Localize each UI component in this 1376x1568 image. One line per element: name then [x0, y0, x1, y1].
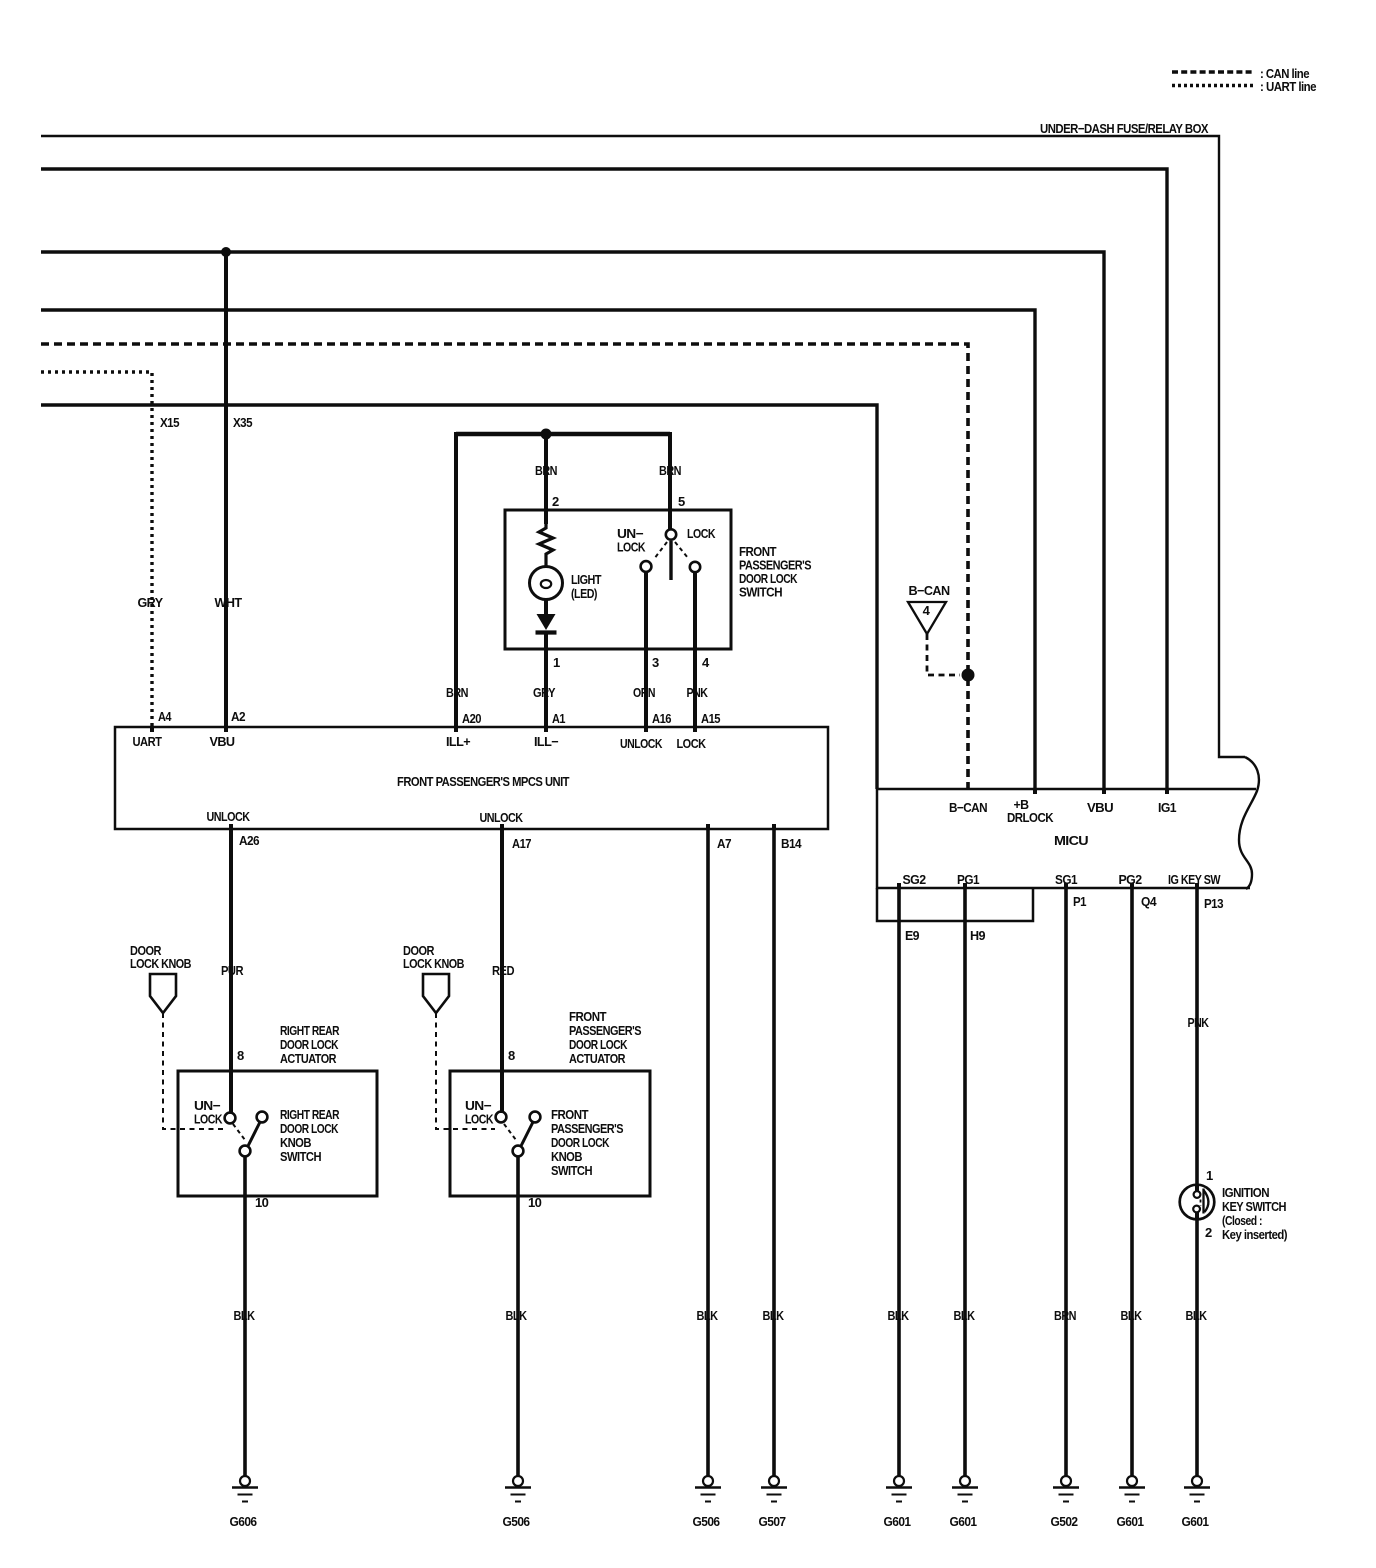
svg-text:BLK: BLK [954, 1308, 976, 1323]
knob switch arm 1 [248, 1122, 260, 1146]
svg-text:E9: E9 [905, 928, 919, 943]
svg-text:P1: P1 [1073, 894, 1086, 909]
door lock knob symbol 1 [150, 974, 176, 1013]
svg-text:BRN: BRN [1054, 1308, 1076, 1323]
legend CAN line sample [1172, 70, 1254, 73]
wire ILL horizontal [456, 432, 670, 437]
svg-text:BLK: BLK [888, 1308, 910, 1323]
svg-text:DRLOCK: DRLOCK [1007, 810, 1054, 825]
svg-text:UNLOCK: UNLOCK [620, 736, 663, 751]
ground G606 [232, 1476, 258, 1502]
LED filament [541, 580, 551, 588]
dashed B-CAN branch [927, 634, 960, 675]
diode bar [536, 630, 557, 634]
wire A7 to ground [706, 829, 710, 1476]
svg-text:GRY: GRY [533, 685, 556, 700]
switch dashed throw left [654, 542, 667, 559]
front passenger's door lock switch box [505, 510, 731, 649]
ignition wire stub top [1195, 1185, 1199, 1192]
svg-text:UNDER−DASH FUSE/RELAY BOX: UNDER−DASH FUSE/RELAY BOX [1040, 121, 1209, 136]
svg-text:PASSENGER'S: PASSENGER'S [569, 1023, 642, 1038]
svg-text:BRN: BRN [659, 463, 681, 478]
svg-text:ILL+: ILL+ [446, 734, 471, 749]
knob switch contact 1c [240, 1146, 251, 1157]
svg-text:FRONT PASSENGER'S MPCS UNIT: FRONT PASSENGER'S MPCS UNIT [397, 774, 570, 789]
svg-text:2: 2 [552, 494, 559, 509]
ground G507 [761, 1476, 787, 1502]
wire PG1 to ground [963, 888, 967, 1476]
svg-text:A7: A7 [717, 836, 731, 851]
svg-text:Q4: Q4 [1141, 894, 1157, 909]
svg-text:SG2: SG2 [903, 872, 926, 887]
svg-text:FRONT: FRONT [551, 1107, 589, 1122]
svg-text:8: 8 [508, 1048, 515, 1063]
ground G601 SG2 [886, 1476, 912, 1502]
switch contact unlock [641, 561, 652, 572]
svg-text:1: 1 [1206, 1168, 1213, 1183]
svg-text:A15: A15 [701, 711, 720, 726]
switch common contact [666, 529, 676, 539]
svg-text:DOOR LOCK: DOOR LOCK [280, 1121, 339, 1136]
svg-text:5: 5 [678, 494, 685, 509]
svg-text:ILL−: ILL− [534, 734, 559, 749]
svg-text:LOCK: LOCK [194, 1112, 223, 1127]
svg-text:Key inserted): Key inserted) [1222, 1227, 1287, 1242]
wire VBU bus [41, 252, 1104, 789]
svg-text:ACTUATOR: ACTUATOR [280, 1051, 337, 1066]
knob switch contact 1b [257, 1112, 268, 1123]
svg-text:IGNITION: IGNITION [1222, 1185, 1269, 1200]
switch contact lock [690, 562, 700, 572]
svg-text:A20: A20 [462, 711, 481, 726]
MICU box [877, 789, 1256, 888]
svg-text:GRY: GRY [138, 595, 164, 610]
svg-text:G601: G601 [1182, 1514, 1209, 1529]
front passenger's door lock actuator box [450, 1071, 650, 1196]
svg-text:LOCK: LOCK [677, 736, 707, 751]
wire knob switch 2 to ground [516, 1157, 520, 1476]
wire to LED pin 2 [544, 434, 548, 524]
MICU torn right edge [1239, 757, 1259, 889]
wire IG KEY SW lower [1195, 1219, 1199, 1476]
svg-text:A17: A17 [512, 836, 531, 851]
resistor [539, 524, 553, 567]
svg-text:B−CAN: B−CAN [909, 583, 950, 598]
under-dash fuse/relay box outline wire [41, 136, 1245, 757]
node junction B-CAN [962, 669, 975, 682]
node junction ILL [541, 429, 552, 440]
svg-text:G502: G502 [1051, 1514, 1078, 1529]
wire lock contact to A15 [693, 572, 697, 727]
wire SG2 to ground [897, 888, 901, 1476]
svg-text:LOCK KNOB: LOCK KNOB [130, 956, 191, 971]
svg-text:BLK: BLK [506, 1308, 528, 1323]
ignition key switch circle [1180, 1185, 1215, 1220]
svg-text:10: 10 [255, 1195, 269, 1210]
wire B-CAN dashed bus [41, 344, 968, 789]
knob switch arm 2 [521, 1122, 533, 1146]
svg-text:UART: UART [133, 734, 163, 749]
svg-text:H9: H9 [970, 928, 985, 943]
svg-text:PG1: PG1 [957, 872, 979, 887]
dashed knob linkage diag 2 [504, 1124, 516, 1140]
svg-text:G507: G507 [759, 1514, 786, 1529]
MICU sub connector box [877, 888, 1033, 921]
door lock knob symbol 2 [423, 974, 449, 1013]
svg-text:RIGHT REAR: RIGHT REAR [280, 1107, 340, 1122]
svg-text:WHT: WHT [215, 595, 243, 610]
svg-text:G506: G506 [503, 1514, 530, 1529]
ground G506 A7 [695, 1476, 721, 1502]
svg-text:SWITCH: SWITCH [280, 1149, 321, 1164]
svg-text:LOCK: LOCK [617, 540, 646, 555]
svg-text:X15: X15 [160, 415, 179, 430]
svg-text:BRN: BRN [446, 685, 468, 700]
svg-text:DOOR LOCK: DOOR LOCK [280, 1037, 339, 1052]
svg-text:BRN: BRN [535, 463, 557, 478]
wire VBU branch to MPCS [224, 252, 228, 727]
svg-text:A1: A1 [552, 711, 565, 726]
svg-text:8: 8 [237, 1048, 244, 1063]
ground G502 [1053, 1476, 1079, 1502]
switch dashed throw right [675, 542, 688, 558]
svg-text:DOOR LOCK: DOOR LOCK [551, 1135, 610, 1150]
wire IG1 bus [41, 169, 1167, 789]
svg-text:BLK: BLK [1186, 1308, 1208, 1323]
svg-text:1: 1 [553, 655, 560, 670]
ignition wire stub bottom [1195, 1212, 1199, 1220]
svg-text:G601: G601 [1117, 1514, 1144, 1529]
svg-text:ACTUATOR: ACTUATOR [569, 1051, 626, 1066]
pin stubs MPCS top [152, 727, 695, 732]
svg-text:(LED): (LED) [571, 586, 597, 601]
knob switch contact 2a [496, 1112, 507, 1123]
wire diode to pin 1 [544, 634, 548, 727]
wire LED to diode [544, 599, 548, 614]
ground G601 PG2 [1119, 1476, 1145, 1502]
svg-text:BLK: BLK [234, 1308, 256, 1323]
ignition contact lower [1193, 1206, 1200, 1213]
svg-text:UNLOCK: UNLOCK [480, 810, 524, 825]
svg-text:10: 10 [528, 1195, 542, 1210]
svg-text:LOCK: LOCK [687, 526, 716, 541]
pin stubs MICU bottom [899, 883, 1197, 888]
svg-text:UNLOCK: UNLOCK [207, 809, 251, 824]
pin stubs MICU top [1035, 789, 1167, 794]
svg-text:(Closed :: (Closed : [1222, 1213, 1262, 1228]
svg-text:DOOR LOCK: DOOR LOCK [569, 1037, 628, 1052]
svg-text:LOCK KNOB: LOCK KNOB [403, 956, 464, 971]
front passenger's MPCS unit box [115, 727, 828, 829]
svg-text:G601: G601 [884, 1514, 911, 1529]
svg-text:BLK: BLK [697, 1308, 719, 1323]
svg-text:3: 3 [652, 655, 659, 670]
wire B14 to ground [772, 829, 776, 1476]
wire IG KEY SW upper [1195, 888, 1199, 1192]
svg-text:A2: A2 [231, 709, 245, 724]
svg-text:: UART line: : UART line [1260, 79, 1316, 94]
svg-text:B−CAN: B−CAN [949, 800, 987, 815]
right rear door lock actuator box [178, 1071, 377, 1196]
svg-text:FRONT: FRONT [569, 1009, 607, 1024]
wire PG2 to ground [1130, 888, 1134, 1476]
node junction VBU branch [221, 247, 231, 257]
svg-text:2: 2 [1205, 1225, 1212, 1240]
svg-text:VBU: VBU [210, 734, 235, 749]
svg-text:KNOB: KNOB [280, 1135, 311, 1150]
wire solid bus to MICU [41, 405, 877, 789]
svg-text:P13: P13 [1204, 896, 1223, 911]
svg-text:PASSENGER'S: PASSENGER'S [551, 1121, 624, 1136]
wire knob switch 1 to ground [243, 1157, 247, 1476]
svg-text:G506: G506 [693, 1514, 720, 1529]
svg-text:VBU: VBU [1087, 800, 1113, 815]
switch arm [669, 541, 672, 580]
ignition dashed link [1200, 1200, 1202, 1206]
svg-text:LIGHT: LIGHT [571, 572, 602, 587]
pin stubs MPCS bottom [231, 824, 774, 829]
wire unlock contact to A16 [644, 572, 648, 727]
svg-text:ORN: ORN [633, 685, 655, 700]
wire A17 to actuator [500, 829, 504, 1113]
svg-text:A16: A16 [652, 711, 671, 726]
svg-text:IG1: IG1 [1158, 800, 1176, 815]
svg-text:KNOB: KNOB [551, 1149, 582, 1164]
svg-text:G606: G606 [230, 1514, 257, 1529]
diode triangle [537, 614, 556, 630]
LED lamp circle [530, 567, 563, 600]
ground G601 IG [1184, 1476, 1210, 1502]
dashed knob linkage 2 [436, 1013, 495, 1129]
svg-text:SWITCH: SWITCH [739, 585, 782, 600]
ignition contact upper [1194, 1191, 1201, 1198]
svg-text:SWITCH: SWITCH [551, 1163, 592, 1178]
ignition key bar [1202, 1189, 1204, 1214]
svg-text:RIGHT REAR: RIGHT REAR [280, 1023, 340, 1038]
wire to switch pin 5 [668, 432, 672, 530]
svg-text:KEY SWITCH: KEY SWITCH [1222, 1199, 1286, 1214]
knob switch contact 1a [225, 1113, 236, 1124]
knob switch contact 2c [513, 1146, 524, 1157]
svg-text:PNK: PNK [687, 685, 709, 700]
svg-text:IG KEY SW: IG KEY SW [1168, 872, 1221, 887]
svg-text:PNK: PNK [1188, 1015, 1210, 1030]
knob switch contact 2b [530, 1112, 541, 1123]
svg-text:X35: X35 [233, 415, 252, 430]
wire ILL+ down to A20 [454, 432, 458, 727]
ground G506 actuator2 [505, 1476, 531, 1502]
dashed knob linkage diag 1 [233, 1124, 245, 1140]
svg-text:LOCK: LOCK [465, 1112, 494, 1127]
wire +B DRLOCK bus [41, 310, 1035, 789]
svg-text:A4: A4 [158, 709, 172, 724]
svg-text:BLK: BLK [763, 1308, 785, 1323]
svg-text:B14: B14 [781, 836, 802, 851]
svg-text:BLK: BLK [1121, 1308, 1143, 1323]
svg-text:G601: G601 [950, 1514, 977, 1529]
svg-text:PUR: PUR [221, 963, 244, 978]
legend UART line sample [1172, 84, 1254, 87]
ignition movable contact arc [1204, 1190, 1209, 1212]
dashed knob linkage 1 [163, 1013, 224, 1129]
ground G601 PG1 [952, 1476, 978, 1502]
svg-text:MICU: MICU [1054, 833, 1088, 848]
wire A26 to actuator [229, 829, 233, 1113]
svg-text:A26: A26 [239, 833, 259, 848]
wire SG1 to ground [1064, 888, 1068, 1476]
svg-text:RED: RED [492, 963, 514, 978]
wire UART dotted bus [41, 372, 152, 727]
B-CAN triangle connector [908, 602, 946, 634]
